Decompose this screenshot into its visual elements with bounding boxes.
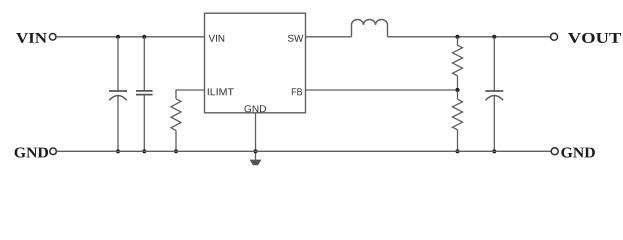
pin label FB — [292, 88, 302, 95]
wire L1 to VOUT — [388, 36, 551, 38]
wire R2 top lead — [457, 90, 459, 99]
ground symbol — [250, 160, 262, 166]
junction dot R3/GND rail — [174, 149, 178, 153]
terminal circle GND right — [551, 148, 558, 155]
junction dot C1/GND rail — [116, 149, 120, 153]
terminal circle GND left — [50, 148, 57, 155]
junction dot R2/GND rail — [455, 149, 459, 153]
wire FB pin to divider — [306, 89, 458, 91]
node GND label left — [15, 147, 48, 157]
capacitor C2 (input cap) — [136, 91, 153, 95]
capacitor C1 (polarized input cap) — [109, 91, 127, 100]
wire C1 bottom lead — [117, 96, 119, 151]
wire R2 bottom lead — [457, 130, 459, 152]
wire GND pin down — [255, 113, 257, 160]
pin label VIN — [209, 35, 225, 42]
junction dot VOUT/C3 — [492, 35, 496, 39]
junction dot GND pin/GND rail — [253, 149, 257, 153]
wire R3 bottom lead — [175, 130, 177, 151]
wire GND rail — [57, 150, 551, 152]
wire C3 bottom lead — [493, 96, 495, 151]
junction dot VIN/C1 — [116, 35, 120, 39]
resistor R3 (current limit) — [171, 99, 181, 131]
node GND label right — [561, 147, 594, 157]
resistor R2 (feedback lower) — [453, 99, 463, 130]
capacitor C3 (polarized output cap) — [485, 91, 503, 100]
wire C1 top lead — [117, 37, 119, 91]
wire R1 top lead — [457, 37, 459, 45]
wire R1 to FB node — [457, 76, 459, 90]
pin label GND — [244, 105, 266, 112]
junction dot C2/GND rail — [142, 149, 146, 153]
terminal circle VOUT — [551, 33, 558, 40]
wire ILIMT pin to R3 — [176, 90, 205, 99]
junction dot VOUT/R1 — [455, 35, 459, 39]
junction dot FB node — [455, 88, 459, 92]
inductor L1 — [352, 19, 388, 36]
wire C3 top lead — [493, 37, 495, 91]
pin label ILIMT — [208, 88, 234, 95]
wire C2 bottom lead — [143, 95, 145, 152]
wire SW pin to L1 — [306, 36, 352, 38]
node VIN label — [16, 33, 47, 43]
junction dot C3/GND rail — [492, 149, 496, 153]
op-amp U1 regulator box — [205, 13, 306, 113]
wire C2 top lead — [143, 37, 145, 91]
wire VIN rail top-left — [56, 36, 204, 38]
terminal circle VIN — [49, 34, 56, 41]
junction dot VIN/C2 — [142, 35, 146, 39]
resistor R1 (feedback upper) — [453, 45, 463, 76]
pin label SW — [288, 35, 304, 42]
node VOUT label — [568, 33, 621, 43]
